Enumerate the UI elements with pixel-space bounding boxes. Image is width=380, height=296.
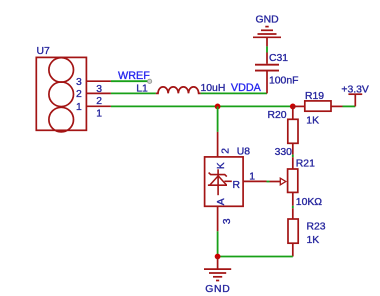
inductor L1 coil [156,87,201,94]
potentiometer R21 wiper arm [270,181,281,183]
U8 diode triangle sides [210,176,227,185]
potentiometer R21 bottom lead [292,192,294,205]
resistor R20 bottom lead [292,143,294,154]
no-connect gray dot on WREF wire [148,79,152,83]
U7 pin 1 lead [86,105,111,107]
resistor R19 left lead [293,105,305,107]
svg-text:1K: 1K [307,235,320,246]
connector U7 body [36,57,86,131]
wire GND to C31 [266,46,268,52]
potentiometer R21 top lead [292,157,294,169]
wire WREF from U7 pin 3 [111,80,148,82]
svg-text:3: 3 [76,77,82,88]
svg-text:R20: R20 [268,110,287,121]
power port GND bottom symbol [204,257,231,281]
svg-text:R23: R23 [307,222,326,233]
capacitor C31 top lead [266,53,268,64]
resistor R23 top lead [292,208,294,219]
wire R20 to R21 [292,155,294,158]
svg-text:1: 1 [249,171,255,182]
potentiometer R21 body [288,169,298,192]
power port GND top symbol [253,27,281,47]
U8 internal cathode line [217,169,219,195]
svg-text:100nF: 100nF [269,76,298,87]
svg-text:U7: U7 [37,46,51,57]
svg-text:GND: GND [205,284,230,295]
junction at U8 branch [215,104,221,110]
junction at R20/R19 branch [290,104,296,110]
capacitor C31 plates [255,65,279,71]
svg-text:3: 3 [222,218,233,224]
resistor R23 bottom lead [292,243,294,256]
wire R19 to +3.3V [343,105,356,107]
svg-text:2: 2 [76,89,82,100]
svg-text:WREF: WREF [118,70,150,82]
resistor R19 right lead [331,105,343,107]
svg-text:2: 2 [96,96,102,107]
U8 pin 1 lead [243,180,266,182]
U8 internal reference line [224,180,231,182]
U8 pin 2 lead [217,132,219,157]
wire U7 pin 1 rail [111,105,293,107]
resistor R23 body [288,219,298,243]
svg-text:C31: C31 [269,53,288,64]
svg-text:10KΩ: 10KΩ [296,197,322,208]
junction at ground rail [215,254,221,260]
resistor R20 body [288,119,298,143]
wire junction down to U8 pin 2 [217,106,219,131]
wire U8 pin1 to R21 wiper [267,181,270,183]
svg-text:330: 330 [275,147,293,158]
wire U7 pin 2 to L1 [111,92,156,94]
U8 diode anode base bar [208,184,227,186]
capacitor C31 bottom lead to VDDA wire [266,71,268,94]
U7 pin 3 lead [86,80,111,82]
wire U8 pin 3 to bottom rail [217,231,219,256]
wire R21 to R23 [292,206,294,209]
power port +3.3V bar symbol [348,94,362,106]
U7 pin 2 lead [86,92,111,94]
svg-text:U8: U8 [237,147,251,158]
svg-text:GND: GND [256,14,279,25]
svg-text:1: 1 [76,102,82,113]
bottom ground rail wire [218,256,293,258]
resistor R20 top lead [292,106,294,119]
svg-text:L1: L1 [136,83,148,94]
svg-text:VDDA: VDDA [231,82,262,94]
U8 pin 3 lead [217,206,219,231]
wire L1 to C31 (VDDA) [201,92,267,94]
svg-text:A: A [216,198,227,205]
svg-text:1K: 1K [306,116,319,127]
svg-text:2: 2 [221,148,232,154]
U8 zener cathode bar [209,173,227,177]
potentiometer R21 wiper arrowhead [280,178,286,185]
svg-text:K: K [216,162,227,169]
svg-text:R: R [233,180,241,191]
resistor R19 body [305,101,331,111]
svg-text:R21: R21 [296,159,315,170]
U8 body [205,157,244,206]
svg-text:1: 1 [96,109,102,120]
